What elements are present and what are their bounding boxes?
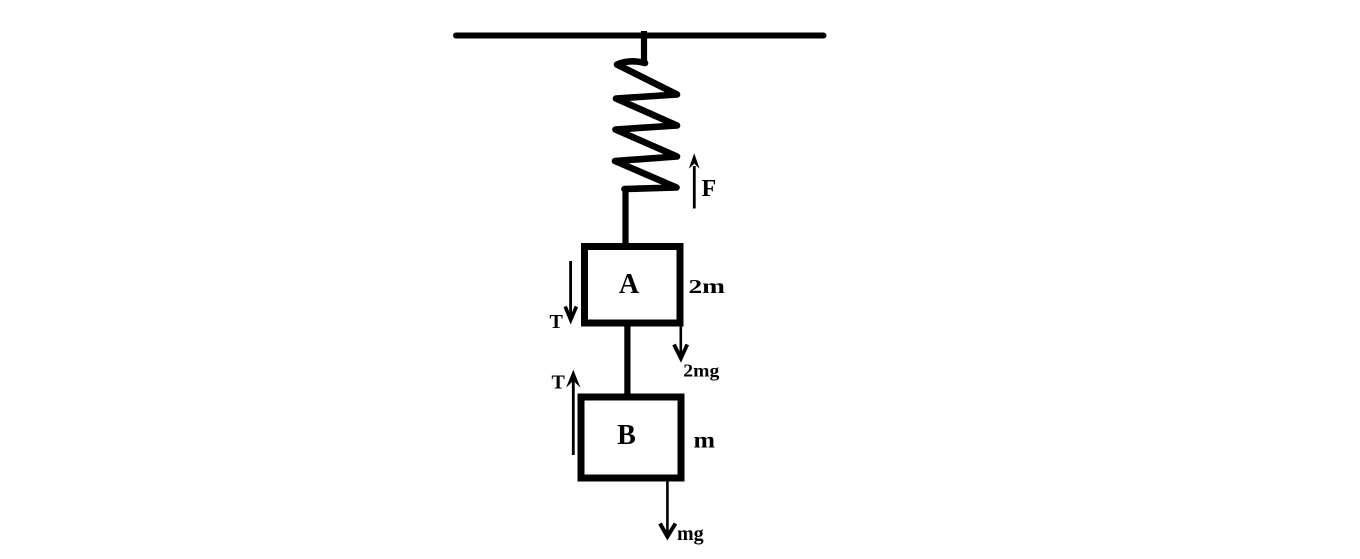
svg-text:A: A [619, 269, 640, 300]
svg-text:2m: 2m [689, 276, 726, 298]
weight arrow mg on block B [660, 481, 676, 537]
svg-text:T: T [552, 372, 566, 394]
svg-text:2mg: 2mg [683, 360, 719, 380]
block B [581, 397, 681, 478]
rod from spring to block A [622, 189, 628, 244]
force arrow F on spring [689, 153, 700, 208]
rod from block A to block B [624, 326, 630, 395]
tension arrow T upward on block B [566, 370, 581, 455]
svg-text:F: F [702, 176, 717, 202]
ceiling line [456, 33, 824, 39]
weight arrow 2mg on block A [674, 323, 687, 358]
svg-text:mg: mg [677, 523, 704, 545]
tension arrow T downward on block A [565, 261, 576, 320]
svg-text:T: T [550, 311, 564, 333]
svg-text:m: m [694, 428, 716, 453]
hanger rod from ceiling to spring [641, 31, 647, 65]
block A [585, 247, 681, 324]
svg-text:B: B [617, 420, 636, 451]
spring [615, 61, 677, 189]
